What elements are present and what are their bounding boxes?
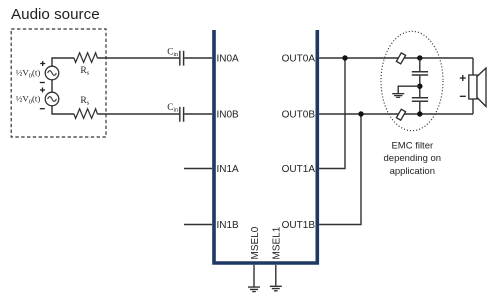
ferrite bead FB2 (bottom) — [396, 109, 405, 120]
speaker LS1 — [469, 68, 486, 107]
wire: series link V1-V2 — [51, 80, 53, 93]
wire: MSEL0 to ground — [253, 265, 255, 287]
wire: top Cin to IN0A — [184, 57, 212, 59]
speaker plus sign — [460, 75, 466, 81]
wire: OUT0B to speaker — [319, 113, 473, 115]
svg-text:EMC filter: EMC filter — [391, 141, 433, 152]
V1 minus sign — [40, 82, 45, 84]
node: junction OUT0A/OUT1A — [342, 55, 347, 60]
wire: MSEL1 to ground — [275, 265, 277, 286]
svg-text:Cin: Cin — [167, 103, 178, 114]
svg-text:depending on: depending on — [384, 153, 442, 164]
node: filter mid junction — [417, 84, 422, 89]
resistor Rs (bottom) — [74, 109, 97, 119]
svg-text:½V0(t): ½V0(t) — [16, 94, 41, 106]
wire: bottom Cin to IN0B — [184, 113, 212, 115]
resistor Rs (top) — [74, 53, 97, 63]
capacitor Cin (bottom) — [180, 107, 184, 122]
svg-text:OUT1A: OUT1A — [282, 164, 316, 175]
svg-text:application: application — [390, 166, 435, 177]
wire: IN1A stub — [184, 168, 212, 170]
svg-text:IN1B: IN1B — [217, 220, 240, 231]
svg-text:Rs: Rs — [80, 95, 89, 107]
IC U1 (amplifier, open-top box) — [214, 30, 317, 263]
node: junction OUT0B/OUT1B — [358, 111, 363, 116]
svg-text:OUT1B: OUT1B — [282, 220, 316, 231]
dashed box: audio source — [11, 29, 106, 137]
speaker minus sign — [460, 95, 466, 97]
EMC filter boundary (dotted ellipse) — [381, 31, 443, 130]
wire: OUT0A to speaker — [319, 57, 473, 59]
V1 plus sign — [40, 61, 45, 66]
label: EMC filter note — [384, 141, 442, 177]
wire: OUT1B up to OUT0B — [319, 114, 361, 225]
ground: filter — [392, 94, 404, 98]
svg-text:OUT0A: OUT0A — [282, 54, 316, 65]
capacitor C1 (filter top) — [412, 72, 428, 75]
svg-text:Audio source: Audio source — [11, 6, 100, 23]
capacitor C2 (filter bottom) — [412, 98, 428, 101]
wire: V1 top lead to resistor — [52, 58, 74, 66]
svg-text:Rs: Rs — [80, 65, 89, 77]
node: filter bottom junction — [417, 111, 422, 116]
capacitor Cin (top) — [180, 51, 184, 66]
ferrite bead FB1 (top) — [396, 53, 405, 64]
wire: speaker bottom lead — [472, 99, 474, 115]
node: filter top junction — [417, 55, 422, 60]
svg-text:IN0B: IN0B — [217, 110, 240, 121]
svg-text:IN0A: IN0A — [217, 54, 240, 65]
svg-text:OUT0B: OUT0B — [282, 110, 316, 121]
V2 minus sign — [40, 108, 45, 110]
wire: OUT1A up to OUT0A — [319, 58, 345, 169]
svg-text:MSEL0: MSEL0 — [250, 226, 261, 259]
wire: IN1B stub — [184, 224, 212, 226]
svg-text:½V0(t): ½V0(t) — [16, 68, 41, 80]
wire: bottom resistor to Cin — [97, 113, 179, 115]
ground: MSEL0 — [248, 287, 260, 292]
wire: speaker top lead — [472, 58, 474, 76]
svg-text:MSEL1: MSEL1 — [272, 226, 283, 259]
wire: filter mid to ground — [398, 86, 420, 93]
source V1 (½V0(t)) — [45, 66, 59, 80]
svg-text:Cin: Cin — [167, 48, 178, 59]
svg-text:IN1A: IN1A — [217, 164, 240, 175]
wire: top resistor to Cin — [97, 57, 179, 59]
source V2 (½V0(t)) — [45, 92, 59, 106]
ground: MSEL1 — [270, 286, 282, 291]
wire: V2 bottom lead to resistor — [52, 106, 74, 114]
V2 plus sign — [40, 88, 45, 93]
wire: filter cap stack verticals — [419, 58, 421, 114]
